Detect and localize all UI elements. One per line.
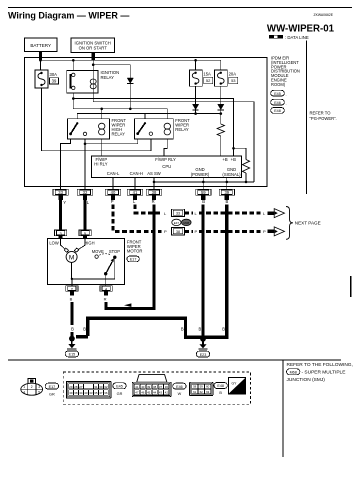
svg-text:E45: E45 [116,385,123,389]
svg-text:E23: E23 [200,353,207,357]
svg-text:P: P [111,199,114,204]
svg-text:63: 63 [206,390,210,394]
svg-text:43: 43 [159,391,163,395]
svg-text:P: P [164,229,167,234]
svg-text:E46: E46 [176,385,183,389]
svg-text:MOVE: MOVE [92,249,104,254]
svg-text:36: 36 [104,391,108,395]
svg-text:38: 38 [176,230,180,234]
svg-text:WW-WIPER-01: WW-WIPER-01 [267,24,335,35]
svg-text:38: 38 [152,190,157,195]
svg-text:“PG-POWER”.: “PG-POWER”. [310,116,337,121]
svg-text:41: 41 [135,385,139,389]
svg-text:35: 35 [94,391,98,395]
svg-text:RELAY: RELAY [101,75,115,80]
svg-text:33: 33 [176,212,180,216]
svg-text:BATTERY: BATTERY [30,43,51,48]
svg-text:37: 37 [159,385,163,389]
svg-text:B: B [198,326,201,331]
svg-text:GR: GR [117,392,123,396]
svg-text:- SUPER MULTIPLE: - SUPER MULTIPLE [302,370,346,376]
svg-text:B: B [83,326,86,331]
svg-text:30A: 30A [50,72,58,77]
svg-text:37: 37 [99,391,103,395]
svg-text:52: 52 [206,78,211,83]
svg-text:38: 38 [153,385,157,389]
svg-text:36: 36 [165,385,169,389]
svg-text:39: 39 [52,79,57,84]
svg-text:32: 32 [104,385,108,389]
svg-text:GR: GR [49,392,55,396]
svg-text:5: 5 [38,391,40,395]
svg-text:: DATA LINE: : DATA LINE [285,35,309,40]
svg-text:15A: 15A [203,72,211,77]
svg-text:REFER TO THE FOLLOWING,: REFER TO THE FOLLOWING, [287,362,353,368]
svg-text:CAN-L: CAN-L [107,171,120,176]
svg-text:62: 62 [200,390,204,394]
svg-text:30: 30 [99,385,103,389]
svg-text:.: . [286,100,287,105]
svg-text:E15: E15 [69,353,76,357]
svg-text:E17: E17 [49,385,56,389]
svg-text:40: 40 [141,385,145,389]
svg-text:41: 41 [133,190,138,195]
svg-text:M: M [69,254,75,261]
svg-text:2: 2 [31,385,33,389]
svg-text:RELAY: RELAY [175,127,189,132]
svg-text:39: 39 [69,391,73,395]
svg-text:ZKWA0662E: ZKWA0662E [314,13,334,17]
svg-text:32: 32 [83,190,88,195]
svg-text:Y: Y [63,200,66,205]
svg-text:47: 47 [135,391,139,395]
svg-text:61: 61 [193,390,197,394]
svg-text:E46: E46 [274,101,281,105]
svg-text:B: B [70,297,73,302]
svg-text:.: . [286,91,287,96]
svg-text:28: 28 [74,385,78,389]
svg-text:27: 27 [79,385,83,389]
svg-text:M68: M68 [290,371,297,375]
svg-text:39: 39 [224,190,229,195]
svg-text:F/WIP RLY: F/WIP RLY [155,157,176,162]
svg-text:LOW: LOW [49,241,58,246]
svg-text:31: 31 [94,385,98,389]
svg-text:38: 38 [74,391,78,395]
svg-text:33: 33 [89,391,93,395]
svg-text:E17: E17 [130,258,137,262]
svg-text:R: R [104,297,107,302]
svg-text:P: P [263,229,266,234]
svg-text:STOP: STOP [109,249,120,254]
svg-text:HI RLY: HI RLY [94,161,107,166]
svg-text:34: 34 [79,391,83,395]
svg-text:(SIGNAL): (SIGNAL) [222,172,241,177]
svg-text:E45: E45 [274,92,281,96]
svg-text:39: 39 [147,385,151,389]
svg-text:P: P [195,229,198,234]
svg-text:NEXT PAGE: NEXT PAGE [295,221,321,226]
svg-text:+B: +B [222,157,227,162]
svg-text:B: B [71,326,74,331]
svg-text:W: W [178,392,182,396]
svg-text:E48: E48 [274,109,281,113]
svg-text:REFER TO: REFER TO [310,111,332,116]
svg-text:42: 42 [165,391,169,395]
svg-text:3: 3 [38,385,40,389]
svg-text:45: 45 [147,391,151,395]
svg-text:ROOM): ROOM) [271,82,286,87]
svg-text:(POWER): (POWER) [191,172,210,177]
svg-text:B: B [181,326,184,331]
svg-text:46: 46 [141,391,145,395]
svg-text:B: B [222,326,225,331]
svg-text:+B: +B [231,157,236,162]
svg-text:58: 58 [193,385,197,389]
svg-text:RELAY: RELAY [112,131,126,136]
svg-text:60: 60 [206,385,210,389]
svg-text:B: B [219,391,222,395]
svg-text:MOTOR: MOTOR [127,248,143,253]
svg-text:20A: 20A [229,72,237,77]
svg-text:R: R [152,199,155,204]
svg-text:1: 1 [23,385,25,389]
svg-text:59: 59 [201,190,206,195]
svg-text:M38: M38 [183,221,189,225]
svg-text:B: B [226,199,229,204]
svg-text:E48: E48 [217,384,224,388]
svg-text:JUNCTION (SMJ): JUNCTION (SMJ) [287,377,326,383]
svg-text:AS SW: AS SW [147,171,161,176]
svg-text:B: B [202,199,205,204]
svg-text:CAN-H: CAN-H [130,171,143,176]
svg-text:H.S.: H.S. [236,389,243,393]
svg-text:44: 44 [153,391,157,395]
svg-text:ON OR START: ON OR START [79,46,108,51]
svg-text:4: 4 [23,391,25,395]
svg-text:HIGH: HIGH [84,241,94,246]
svg-text:53: 53 [231,78,236,83]
svg-text:33: 33 [58,190,63,195]
svg-text:Wiring Diagram — WIPER —: Wiring Diagram — WIPER — [8,11,129,21]
svg-text:E47: E47 [174,221,180,225]
svg-text:59: 59 [200,385,204,389]
svg-text:29: 29 [69,385,73,389]
svg-text:40: 40 [111,190,116,195]
svg-text:CPU: CPU [162,164,171,169]
svg-text:GY: GY [232,382,238,386]
svg-text:40: 40 [84,391,88,395]
